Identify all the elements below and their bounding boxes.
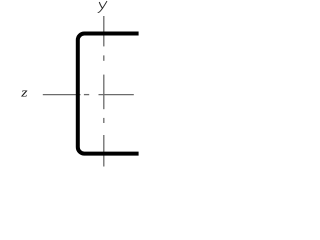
- svg-text:z: z: [20, 86, 28, 100]
